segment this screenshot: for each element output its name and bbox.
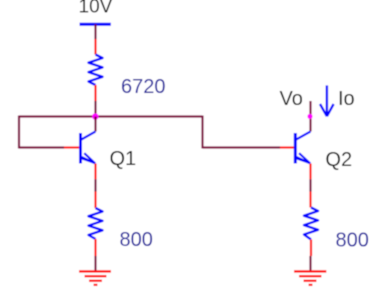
wire emitter net left — [94, 179, 96, 191]
svg-text:800: 800 — [120, 229, 153, 251]
wire resistor R2 bottom pin — [94, 239, 96, 256]
wire resistor R2 top pin — [94, 192, 96, 209]
wire emitter net right — [309, 179, 311, 191]
svg-text:10V: 10V — [79, 0, 113, 18]
power symbol VCC bar — [80, 23, 111, 26]
wire Vo output stub — [309, 101, 311, 132]
wire resistor R3 bottom pin — [310, 240, 312, 257]
resistor R1 body — [89, 55, 103, 86]
resistor R3 body — [304, 208, 318, 240]
node Vo dot — [307, 114, 312, 119]
wire Q2 base pin — [280, 146, 294, 148]
transistor Q1 — [81, 132, 96, 164]
resistor R2 body — [89, 208, 103, 239]
wire to ground right — [309, 256, 311, 271]
wire middle horizontal to Q2 — [203, 146, 281, 148]
transistor Q2 — [295, 132, 310, 164]
svg-text:6720: 6720 — [121, 76, 166, 98]
wire middle step vertical — [201, 116, 203, 149]
svg-text:Q1: Q1 — [110, 148, 137, 170]
wire to junction — [94, 101, 96, 117]
wire feedback bottom horizontal — [19, 146, 64, 148]
wire to ground left — [94, 256, 96, 271]
wire feedback left vertical — [18, 116, 20, 149]
wire main horizontal net — [19, 115, 203, 117]
wire power stub — [94, 24, 96, 39]
svg-text:Q2: Q2 — [325, 149, 352, 171]
wire Q1 emitter pin — [94, 164, 96, 180]
wire Q2 emitter pin — [309, 164, 311, 180]
ground right — [294, 271, 326, 285]
wire resistor R1 top pin — [94, 39, 96, 55]
wire Q1 collector — [94, 117, 96, 132]
svg-text:800: 800 — [336, 229, 369, 251]
wire resistor R1 bottom pin — [94, 85, 96, 101]
junction node dot — [92, 113, 99, 120]
svg-text:Io: Io — [338, 88, 355, 110]
wire resistor R3 top pin — [309, 192, 311, 208]
ground left — [79, 271, 111, 285]
svg-text:Vo: Vo — [280, 88, 303, 110]
current arrow Io — [320, 85, 334, 116]
wire Q1 base pin — [64, 146, 80, 148]
